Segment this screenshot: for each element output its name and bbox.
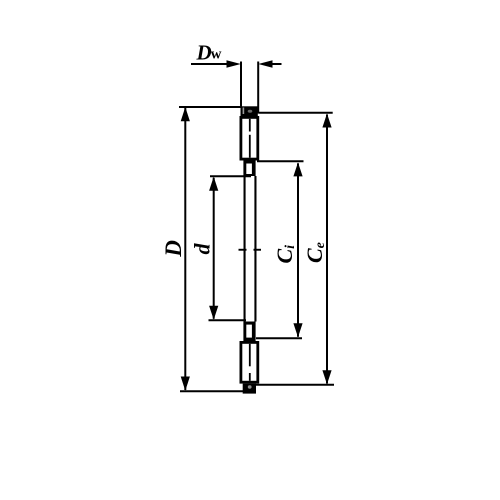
svg-text:d: d	[190, 243, 215, 255]
svg-text:D: D	[161, 240, 186, 258]
